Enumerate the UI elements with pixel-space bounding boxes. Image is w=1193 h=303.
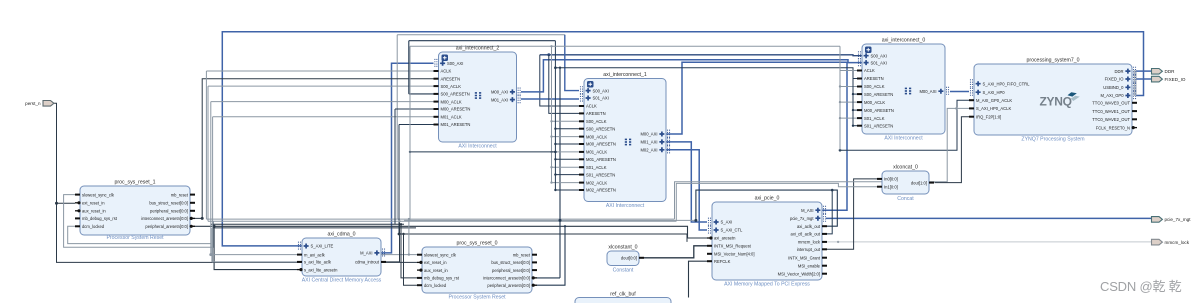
- block ref_clk_buf: [575, 292, 671, 303]
- svg-text:M02_AXI: M02_AXI: [640, 148, 657, 153]
- svg-text:TTC0_WAVE2_OUT: TTC0_WAVE2_OUT: [1092, 117, 1130, 122]
- svg-text:M00_ARESETN: M00_ARESETN: [586, 142, 616, 147]
- svg-text:slowest_sync_clk: slowest_sync_clk: [82, 192, 115, 197]
- wire bus pcie M_AXI up: [822, 62, 847, 210]
- svg-text:S00_AXI: S00_AXI: [871, 53, 887, 58]
- svg-text:DDR: DDR: [1165, 69, 1176, 74]
- svg-text:S01_ARESETN: S01_ARESETN: [864, 123, 893, 128]
- svg-text:m_axi_aclk: m_axi_aclk: [304, 252, 326, 257]
- svg-text:S00_ARESETN: S00_ARESETN: [864, 92, 893, 97]
- wire mmcm_lock to port: [822, 241, 1152, 243]
- svg-text:In0[0:0]: In0[0:0]: [884, 177, 898, 182]
- wire axi_ctl_aclk_out: [822, 190, 832, 234]
- svg-text:FCLK_RESET0_N: FCLK_RESET0_N: [1096, 125, 1130, 130]
- svg-text:M_AXI_GP0_ACLK: M_AXI_GP0_ACLK: [976, 98, 1012, 103]
- svg-text:axi_aclk_out: axi_aclk_out: [797, 224, 821, 229]
- wire rail E y220.4: [404, 219, 696, 221]
- svg-text:ZYNQ: ZYNQ: [1040, 95, 1072, 109]
- wire FIXED_IO wire: [1136, 78, 1152, 80]
- svg-text:ARESETN: ARESETN: [441, 76, 461, 81]
- junction v695 dot: [694, 219, 697, 222]
- junction d555 dot 128.7: [554, 128, 556, 130]
- wire v408 dark: [408, 41, 410, 94]
- svg-text:ref_clk_buf: ref_clk_buf: [610, 292, 636, 298]
- wire m_axi_aclk line: [211, 254, 417, 256]
- wire ic2 M00_ACLK: [211, 101, 434, 103]
- svg-text:M01_AXI: M01_AXI: [491, 97, 508, 102]
- svg-text:AXI Interconnect: AXI Interconnect: [458, 144, 497, 150]
- wire ic1 rst row 190: [555, 189, 579, 191]
- junction slowest r0 tap: [408, 253, 410, 255]
- svg-text:aux_reset_in: aux_reset_in: [82, 209, 106, 214]
- svg-text:mb_reset: mb_reset: [513, 252, 531, 257]
- svg-text:ARESETN: ARESETN: [586, 111, 606, 116]
- junction g551 dot 182.6: [550, 181, 552, 183]
- svg-text:M00_AXI: M00_AXI: [491, 90, 508, 95]
- wire bus ic1 M02_AXI to pcie S_AXI_CTL: [666, 150, 707, 230]
- wire xlconstant dout to INTX_MSI_Request: [639, 246, 707, 258]
- svg-text:proc_sys_reset_0: proc_sys_reset_0: [457, 241, 498, 247]
- junction railF start dot: [398, 233, 401, 236]
- wire perst_n net: [54, 103, 417, 262]
- wire hp0_aclk line: [675, 108, 970, 219]
- wire ic1 clk row 121.3: [552, 120, 580, 122]
- svg-text:S00_AXI: S00_AXI: [593, 88, 609, 93]
- svg-text:axi_aresetn: axi_aresetn: [714, 236, 736, 241]
- port perst_n: [25, 101, 54, 107]
- svg-text:REFCLK: REFCLK: [714, 259, 731, 264]
- svg-text:interconnect_aresetn[0:0]: interconnect_aresetn[0:0]: [483, 276, 530, 281]
- svg-text:s_axi_lite_aresetn: s_axi_lite_aresetn: [304, 267, 338, 272]
- junction v560 top dot: [559, 67, 561, 69]
- svg-text:dout[0:0]: dout[0:0]: [621, 256, 637, 261]
- svg-text:S00_ARESETN: S00_ARESETN: [441, 92, 470, 97]
- svg-text:ACLK: ACLK: [864, 68, 875, 73]
- wire r1 interconnect_aresetn to ic2 ARESETN: [190, 79, 434, 219]
- wire ic0 ACLK: [840, 46, 862, 70]
- svg-text:bus_struct_reset[0:0]: bus_struct_reset[0:0]: [149, 201, 188, 206]
- wire v397 left drop: [396, 35, 398, 219]
- svg-text:ext_reset_in: ext_reset_in: [82, 201, 105, 206]
- wire ic1 clk row 182.6: [552, 182, 580, 184]
- svg-text:FIXED_IO: FIXED_IO: [1165, 77, 1186, 82]
- svg-text:S_AXI_HP0_FIFO_CTRL: S_AXI_HP0_FIFO_CTRL: [983, 81, 1031, 86]
- svg-text:interconnect_aresetn[0:0]: interconnect_aresetn[0:0]: [141, 216, 188, 221]
- wire v560 long: [559, 68, 561, 278]
- svg-text:S_AXI_HP0_ACLK: S_AXI_HP0_ACLK: [976, 106, 1011, 111]
- svg-text:Concat: Concat: [897, 196, 914, 202]
- junction perst junction r1: [55, 202, 58, 205]
- wire g551: [551, 46, 553, 182]
- svg-text:S_AXI: S_AXI: [721, 220, 733, 225]
- svg-text:S01_ACLK: S01_ACLK: [586, 165, 607, 170]
- wire v399: [398, 125, 400, 235]
- wire bus drop ic1 S00_AXI: [565, 35, 579, 91]
- junction g551 dot 121.3: [550, 120, 552, 122]
- wire ic2 ACLK: [206, 70, 433, 72]
- svg-text:axi_interconnect_1: axi_interconnect_1: [603, 72, 647, 78]
- svg-text:Constant: Constant: [613, 268, 634, 274]
- wire ic1 rst row 144: [555, 143, 579, 145]
- wire ic2 S00_ARESETN: [409, 93, 434, 95]
- block xlconcat_0: [877, 165, 934, 203]
- wire g840: [839, 71, 841, 151]
- wire railB up to In1: [676, 183, 877, 221]
- junction g551 dot 167.2: [550, 166, 552, 168]
- svg-text:M02_ACLK: M02_ACLK: [586, 180, 607, 185]
- wire ic2 S00_ACLK: [208, 85, 434, 87]
- block processing_system7_0: [969, 58, 1137, 143]
- wire ic2 M00_ARESETN: [395, 108, 434, 110]
- wire dark top y40.7: [409, 40, 556, 42]
- junction introut rail dot: [398, 220, 400, 222]
- wire rail D y227.9: [213, 227, 416, 229]
- port DDR: [1152, 69, 1176, 75]
- wire ic0 clk row 118.1: [840, 117, 857, 119]
- svg-text:peripheral_reset[0:0]: peripheral_reset[0:0]: [150, 209, 188, 214]
- wire rail y46.3: [410, 45, 840, 47]
- block proc_sys_reset_1: [75, 180, 195, 242]
- PS7 interface stub bars: [1134, 70, 1136, 96]
- svg-text:S00_ACLK: S00_ACLK: [586, 119, 607, 124]
- svg-text:Processor System Reset: Processor System Reset: [448, 295, 506, 301]
- wire v206 ACLK: [205, 71, 207, 219]
- svg-text:ACLK: ACLK: [441, 69, 452, 74]
- wire v408 slowest feed: [408, 219, 410, 255]
- wire ic1 ARESETN: [549, 55, 579, 114]
- wire r1 peripheral_aresetn rail: [190, 226, 707, 238]
- junction g840 dot 86.5: [839, 85, 841, 87]
- junction mmcm tap: [837, 241, 839, 243]
- junction v560 rail dot: [559, 219, 562, 222]
- wire rail A y219.1: [206, 218, 674, 220]
- svg-text:axi_cdma_0: axi_cdma_0: [328, 232, 356, 238]
- junction d555 dot 190: [554, 189, 556, 191]
- svg-text:M00_AXI: M00_AXI: [919, 89, 936, 94]
- svg-text:peripheral_aresetn[0:0]: peripheral_aresetn[0:0]: [487, 283, 530, 288]
- wire ic0 rst row 94.1: [853, 93, 857, 95]
- svg-text:processing_system7_0: processing_system7_0: [1026, 58, 1079, 64]
- wire perst to r1 ext_reset: [57, 202, 76, 204]
- svg-text:peripheral_reset[0:0]: peripheral_reset[0:0]: [492, 268, 530, 273]
- junction m_axi dot: [209, 253, 212, 256]
- svg-text:MSI_Vector_Num[4:0]: MSI_Vector_Num[4:0]: [714, 252, 755, 257]
- svg-text:S_AXI_CTL: S_AXI_CTL: [721, 228, 744, 233]
- wire navy line to ic0 S00_AXI: [540, 54, 862, 57]
- wire bus M_AXI_GP0 to S_AXI_LITE: [222, 32, 1143, 246]
- wire bus ic1 M01_AXI to pcie S_AXI: [666, 142, 707, 222]
- wire v565 aresetn: [532, 226, 565, 285]
- wire r1 dcm_locked: [68, 226, 211, 243]
- wire bus ic0 M00_AXI to PS7 S_AXI_HP0: [950, 91, 969, 93]
- wire r1 slowest_sync_clk: [64, 195, 214, 248]
- svg-text:AXI Memory Mapped To PCI Expre: AXI Memory Mapped To PCI Express: [724, 282, 810, 288]
- svg-text:bus_struct_reset[0:0]: bus_struct_reset[0:0]: [491, 260, 530, 265]
- svg-text:M00_ACLK: M00_ACLK: [864, 100, 885, 105]
- svg-text:S01_AXI: S01_AXI: [871, 60, 887, 65]
- wire ic1 clk row 151.9: [552, 151, 580, 153]
- svg-text:M00_AXI: M00_AXI: [640, 132, 657, 137]
- wire d555: [554, 41, 556, 190]
- wire ic0 rst row 110.1: [853, 109, 857, 111]
- junction gp0 aclk junction: [839, 149, 842, 152]
- svg-text:INTX_MSI_Grant: INTX_MSI_Grant: [788, 255, 821, 260]
- svg-text:mmcm_lock: mmcm_lock: [1165, 240, 1190, 245]
- svg-text:USBIND_0: USBIND_0: [1103, 85, 1124, 90]
- svg-text:pcie_7x_mgt: pcie_7x_mgt: [790, 216, 814, 221]
- junction d853 dot 94.1: [852, 93, 854, 95]
- wire s_axi_lite_aclk line: [212, 261, 297, 263]
- svg-text:M00_ARESETN: M00_ARESETN: [441, 107, 471, 112]
- block axi_interconnect_0: [857, 38, 949, 142]
- block axi_interconnect_1: [579, 72, 670, 209]
- svg-text:mmcm_lock: mmcm_lock: [798, 240, 821, 245]
- svg-text:ARESETN: ARESETN: [864, 76, 884, 81]
- junction tap d548: [547, 53, 550, 56]
- wire REFCLK feed: [689, 261, 708, 297]
- svg-text:Processor System Reset: Processor System Reset: [106, 235, 164, 241]
- junction g840 dot 118.1: [839, 117, 841, 119]
- wire ic2 M01_ACLK: [213, 116, 434, 118]
- svg-text:M00_ACLK: M00_ACLK: [441, 99, 462, 104]
- wire rail C y224.3: [211, 223, 404, 225]
- junction v565 dot: [564, 225, 566, 227]
- svg-text:mb_debug_sys_rst: mb_debug_sys_rst: [424, 276, 460, 281]
- wire bus ic2 M00_AXI: [521, 60, 862, 92]
- wire d853: [852, 79, 854, 126]
- junction v408 top dot: [408, 218, 410, 220]
- junction d555 dot 174.6: [554, 173, 556, 175]
- wire dout to IRQ_F2P: [935, 117, 970, 183]
- svg-text:IRQ_F2P[1:0]: IRQ_F2P[1:0]: [976, 114, 1001, 119]
- wire v539 to ic1 ACLK: [540, 55, 579, 106]
- wire bus ic2 M01_AXI to ic1 S01_AXI: [521, 98, 579, 100]
- svg-text:axi_interconnect_2: axi_interconnect_2: [456, 46, 500, 52]
- wire dcm r0 feed: [404, 234, 418, 285]
- port pcie_7x_mgt: [1152, 217, 1192, 223]
- wire DDR wire: [1136, 70, 1152, 72]
- svg-text:S00_ACLK: S00_ACLK: [864, 84, 885, 89]
- junction mb_debug tap: [400, 223, 402, 225]
- wire ic1 rst row 159.3: [555, 158, 579, 160]
- svg-text:M_AXI: M_AXI: [360, 251, 372, 256]
- svg-text:M02_ARESETN: M02_ARESETN: [586, 188, 616, 193]
- wire bus ic1 M00_AXI: [666, 62, 848, 134]
- wire ic1 rst row 174.6: [555, 174, 579, 176]
- svg-text:M_AXI_GP0: M_AXI_GP0: [1100, 93, 1124, 98]
- wire rail F y234: [399, 234, 687, 242]
- wire ic2 M01_ARESETN: [399, 124, 434, 126]
- svg-text:S00_ARESETN: S00_ARESETN: [586, 126, 615, 131]
- svg-text:perst_n: perst_n: [25, 101, 41, 106]
- svg-text:peripheral_aresetn[0:0]: peripheral_aresetn[0:0]: [145, 224, 188, 229]
- wire v211 lite_aclk: [211, 228, 213, 262]
- svg-text:dcm_locked: dcm_locked: [82, 224, 105, 229]
- wire dark y67.7 to ic0 ARESETN: [555, 68, 862, 79]
- wire M_AXI_GP0_ACLK feed: [840, 100, 969, 150]
- junction g551 top: [550, 45, 552, 47]
- svg-text:ACLK: ACLK: [586, 104, 597, 109]
- wire gray top line to ic1 S00: [397, 34, 565, 36]
- ZYNQ logo: [1040, 92, 1080, 108]
- junction d555 dot 159.3: [554, 158, 556, 160]
- wire cdma_introut: [381, 221, 400, 262]
- junction d555 tap: [554, 66, 557, 69]
- svg-text:ZYNQ7 Processing System: ZYNQ7 Processing System: [1021, 137, 1084, 143]
- svg-text:S00_ACLK: S00_ACLK: [441, 84, 462, 89]
- block axi_interconnect_2: [434, 46, 521, 150]
- svg-text:S_AXI_LITE: S_AXI_LITE: [311, 244, 334, 249]
- svg-text:S_AXI_HP0: S_AXI_HP0: [983, 90, 1006, 95]
- junction g840 dot 102.1: [839, 101, 841, 103]
- wire v208 S00_ACLK: [207, 86, 209, 221]
- svg-text:pcie_7x_mgt: pcie_7x_mgt: [1165, 217, 1192, 222]
- svg-text:FIXED_IO: FIXED_IO: [1105, 77, 1125, 82]
- svg-text:M01_ARESETN: M01_ARESETN: [441, 122, 471, 127]
- junction peripheral dot: [213, 225, 216, 228]
- junction g551 dot 151.9: [550, 151, 552, 153]
- svg-text:M_AXI: M_AXI: [801, 208, 813, 213]
- junction hp0 aclk dot: [955, 107, 958, 110]
- junction d555 dot 144: [554, 143, 556, 145]
- wire pcie_7x_mgt to port: [826, 217, 1152, 219]
- junction d853 dot 125.7: [852, 125, 854, 127]
- port mmcm_lock: [1152, 239, 1190, 245]
- junction aresetn corner dot: [201, 217, 204, 220]
- wire long line to ic1 M01_ACLK: [410, 151, 555, 153]
- svg-text:In1[0:0]: In1[0:0]: [884, 184, 898, 189]
- wire v212 M01_ACLK: [212, 117, 214, 262]
- port FIXED_IO: [1152, 76, 1186, 82]
- wire mb_debug r0 feed: [401, 224, 417, 278]
- wire ic0 rst row 125.7: [853, 125, 857, 127]
- svg-text:dout[1:0]: dout[1:0]: [911, 180, 927, 185]
- svg-text:S00_AXI: S00_AXI: [447, 61, 463, 66]
- svg-text:TTC0_WAVE1_OUT: TTC0_WAVE1_OUT: [1092, 109, 1130, 114]
- wire ic0 clk row 102.1: [840, 101, 857, 103]
- wire interrupt_out to In0: [822, 179, 877, 249]
- block axi_pcie_0: [707, 196, 827, 288]
- svg-text:M01_AXI: M01_AXI: [640, 140, 657, 145]
- junction dcm tap: [402, 233, 404, 235]
- svg-text:AXI Interconnect: AXI Interconnect: [606, 203, 645, 209]
- wire v210 M00_ACLK: [210, 102, 212, 255]
- svg-text:S01_AXI: S01_AXI: [593, 96, 609, 101]
- svg-text:axi_pcie_0: axi_pcie_0: [755, 196, 780, 202]
- wire ic1 clk row 136.6: [552, 136, 580, 138]
- wire r0 interconnect_aresetn to v560: [532, 277, 560, 279]
- svg-text:axi_ctl_aclk_out: axi_ctl_aclk_out: [791, 232, 821, 237]
- svg-text:axi_interconnect_0: axi_interconnect_0: [882, 38, 926, 44]
- svg-text:MSI_Vector_Width[2:0]: MSI_Vector_Width[2:0]: [778, 271, 820, 276]
- svg-text:CSDN @乾 乾: CSDN @乾 乾: [1100, 279, 1182, 294]
- svg-text:AXI Central Direct Memory Acce: AXI Central Direct Memory Access: [302, 278, 382, 284]
- junction g551 dot 136.6: [550, 135, 552, 137]
- junction m01aclk left end: [409, 151, 411, 153]
- svg-text:mb_debug_sys_rst: mb_debug_sys_rst: [82, 216, 118, 221]
- svg-text:ext_reset_in: ext_reset_in: [424, 260, 447, 265]
- svg-text:M01_ACLK: M01_ACLK: [441, 115, 462, 120]
- block xlconstant_0: [607, 245, 644, 274]
- block axi_cdma_0: [297, 232, 386, 284]
- wire bus cdma M_AXI to ic2 S00_AXI: [381, 63, 434, 253]
- svg-text:INTX_MSI_Request: INTX_MSI_Request: [714, 244, 752, 249]
- svg-text:S01_ACLK: S01_ACLK: [864, 116, 885, 121]
- wire rail B y221.3: [208, 220, 676, 222]
- junction d853 dot 110.1: [852, 109, 854, 111]
- svg-text:aux_reset_in: aux_reset_in: [424, 268, 448, 273]
- wire v395: [394, 109, 396, 224]
- svg-text:M00_ACLK: M00_ACLK: [586, 134, 607, 139]
- svg-text:xlconstant_0: xlconstant_0: [608, 245, 637, 251]
- wire ic1 rst row 128.7: [555, 128, 579, 130]
- svg-text:s_axi_lite_aclk: s_axi_lite_aclk: [304, 260, 332, 265]
- svg-text:S01_ARESETN: S01_ARESETN: [586, 172, 615, 177]
- wire drop to s_axi_lite_aresetn: [214, 226, 297, 269]
- block proc_sys_reset_0: [417, 241, 537, 301]
- junction m01aclk tap: [554, 151, 557, 154]
- svg-text:slowest_sync_clk: slowest_sync_clk: [424, 252, 457, 257]
- wire v410: [409, 46, 411, 220]
- svg-text:M00_ARESETN: M00_ARESETN: [864, 108, 894, 113]
- svg-text:xlconcat_0: xlconcat_0: [893, 165, 918, 171]
- junction ctl_aclk junction: [831, 189, 834, 192]
- svg-text:cdma_introut: cdma_introut: [355, 260, 380, 265]
- svg-text:MSI_enable: MSI_enable: [798, 263, 821, 268]
- svg-text:M01_ARESETN: M01_ARESETN: [586, 157, 616, 162]
- svg-text:mb_reset: mb_reset: [171, 192, 189, 197]
- svg-text:interrupt_out: interrupt_out: [797, 247, 821, 252]
- wire ic0 clk row 86.5: [840, 86, 857, 88]
- wire ic1 clk row 167.2: [552, 166, 580, 168]
- wire axi_aclk_out loop: [696, 190, 837, 226]
- svg-text:dcm_locked: dcm_locked: [424, 283, 447, 288]
- svg-text:M01_ACLK: M01_ACLK: [586, 150, 607, 155]
- svg-text:TTC0_WAVE0_OUT: TTC0_WAVE0_OUT: [1092, 101, 1130, 106]
- svg-text:AXI Interconnect: AXI Interconnect: [884, 136, 923, 142]
- svg-text:proc_sys_reset_1: proc_sys_reset_1: [115, 180, 156, 186]
- svg-text:DDR: DDR: [1115, 69, 1124, 74]
